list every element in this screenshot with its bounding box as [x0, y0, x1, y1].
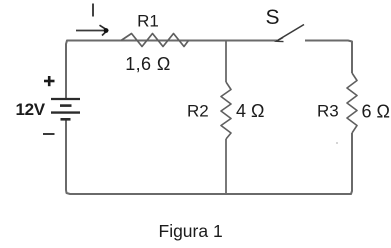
wire: R2 branch top from node to zigzag — [225, 41, 227, 83]
wire: left side + top-left corner + top wire to switch pivot — [66, 41, 277, 99]
svg-text:R2: R2 — [187, 102, 209, 121]
switch S blade — [277, 25, 305, 42]
battery 12V plates — [51, 98, 80, 100]
svg-text:4 Ω: 4 Ω — [236, 101, 264, 121]
svg-text:I: I — [90, 0, 95, 20]
artifact dot — [336, 142, 338, 144]
resistor R3 zigzag — [347, 73, 357, 133]
battery plus sign — [44, 80, 55, 83]
current arrow I — [76, 30, 104, 32]
svg-text:S: S — [265, 6, 279, 29]
svg-text:R3: R3 — [317, 102, 339, 121]
wire: R2 branch bottom from zigzag to bottom wire — [225, 139, 227, 194]
svg-text:Figura 1: Figura 1 — [159, 221, 223, 241]
switch pivot tick — [277, 38, 284, 42]
resistor R2 zigzag — [221, 82, 231, 139]
resistor R1 zigzag — [121, 34, 189, 47]
svg-text:12V: 12V — [16, 100, 46, 119]
battery minus sign — [43, 133, 55, 135]
svg-text:6 Ω: 6 Ω — [362, 102, 390, 122]
svg-text:R1: R1 — [137, 12, 159, 31]
wire: R3 bottom, bottom wire, left wire up to battery bottom — [66, 120, 352, 194]
wire: top-right segment from switch to corner, down to R3 top — [305, 41, 352, 74]
svg-text:1,6 Ω: 1,6 Ω — [125, 54, 170, 74]
